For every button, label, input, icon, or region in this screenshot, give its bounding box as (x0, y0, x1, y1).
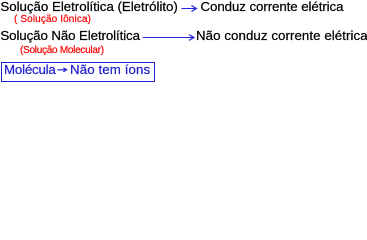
line 2 right text (196, 29, 367, 42)
arrow line 1 (blue) (0, 0, 367, 83)
red caption 1: ( Solução Iônica) (14, 15, 91, 25)
bottom box: Molécula → Não tem íons (1, 62, 155, 82)
line 2 text (0, 29, 140, 42)
arrow line 2 (blue long) (143, 35, 194, 41)
line 1 right text (201, 0, 344, 13)
line 1 text: Solução Eletrolítica (Eletrólito) (0, 0, 177, 13)
red caption 2: (Solução Molecular) (20, 46, 104, 56)
